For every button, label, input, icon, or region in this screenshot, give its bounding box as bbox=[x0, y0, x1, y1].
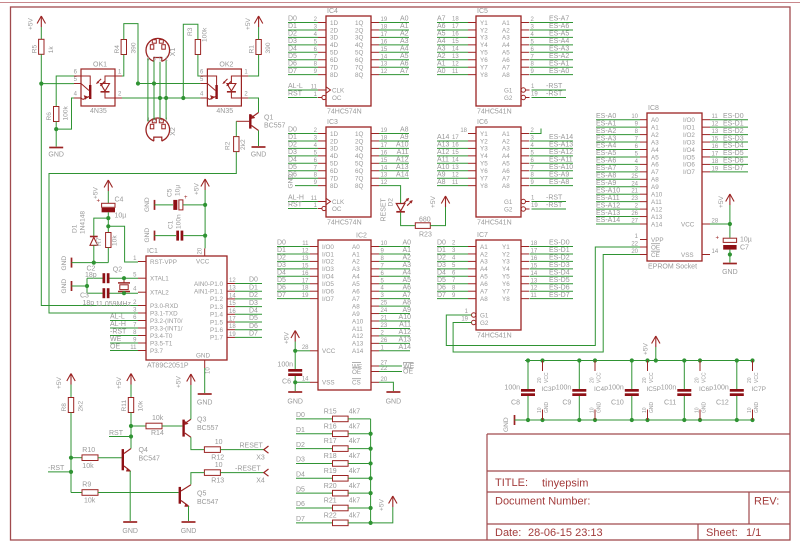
net label A5 bbox=[379, 277, 411, 284]
junction bbox=[203, 203, 207, 207]
net label D2 bbox=[235, 292, 262, 299]
net label AL-H bbox=[110, 321, 138, 328]
net label ES-A2 bbox=[530, 53, 574, 60]
net label ES-D0 bbox=[530, 240, 574, 247]
svg-text:D2: D2 bbox=[437, 255, 446, 262]
resistor R18 4k7 bbox=[296, 453, 373, 466]
svg-text:3Q: 3Q bbox=[355, 146, 364, 153]
net label RST bbox=[109, 430, 131, 437]
IC8 EPROM socket bbox=[631, 105, 719, 271]
svg-text:28: 28 bbox=[302, 345, 309, 351]
svg-text:10k: 10k bbox=[84, 498, 96, 505]
net label D5 bbox=[235, 315, 262, 322]
wire X1-X2 pin column a bbox=[147, 59, 149, 122]
svg-text:D1: D1 bbox=[437, 247, 446, 254]
net label D7 bbox=[437, 292, 468, 299]
svg-text:ES-D2: ES-D2 bbox=[549, 255, 570, 262]
net label D7 bbox=[277, 292, 310, 299]
svg-text:A0: A0 bbox=[437, 68, 446, 75]
svg-text:+5V: +5V bbox=[56, 376, 63, 389]
net label D2 bbox=[288, 142, 318, 149]
svg-text:D6: D6 bbox=[249, 323, 258, 330]
IC5 74HC541N bbox=[468, 8, 538, 116]
+5V supply arrow bbox=[284, 331, 300, 345]
net label ES-A14 bbox=[596, 217, 640, 224]
junction bbox=[293, 380, 297, 384]
wire row OK1 pin 2 to OK2 pin 4 bbox=[122, 97, 200, 99]
svg-text:D5: D5 bbox=[296, 486, 305, 493]
svg-text:IC6P: IC6P bbox=[699, 386, 713, 393]
svg-text:D5: D5 bbox=[277, 277, 286, 284]
svg-text:GND: GND bbox=[197, 400, 213, 407]
svg-text:R3: R3 bbox=[187, 27, 194, 36]
svg-text:4k7: 4k7 bbox=[349, 409, 360, 416]
net label A7 bbox=[379, 68, 409, 75]
svg-text:A1: A1 bbox=[480, 244, 488, 251]
bypass rail +5V top bbox=[525, 360, 754, 362]
svg-text:4k7: 4k7 bbox=[349, 512, 360, 519]
svg-text:P3.0-RXD: P3.0-RXD bbox=[150, 303, 179, 310]
svg-text:G2: G2 bbox=[504, 206, 513, 213]
svg-text:A12: A12 bbox=[399, 329, 412, 336]
wire R1 to OK2 pin 1 bbox=[248, 55, 258, 77]
capacitor C4 10u polarized bbox=[96, 197, 126, 220]
svg-text:A6: A6 bbox=[352, 289, 360, 296]
svg-text:+5V: +5V bbox=[284, 331, 291, 344]
wire VSS bbox=[295, 376, 310, 382]
svg-text:18: 18 bbox=[460, 128, 467, 134]
wire Q4 collector bbox=[130, 447, 132, 449]
net label ES-A0 bbox=[596, 113, 640, 120]
net label D0 bbox=[277, 240, 310, 247]
svg-text:ES-A5: ES-A5 bbox=[549, 31, 569, 38]
svg-text:R17: R17 bbox=[324, 438, 337, 445]
net label A5 bbox=[379, 53, 409, 60]
svg-text:20: 20 bbox=[537, 377, 543, 383]
svg-text:R10: R10 bbox=[82, 447, 95, 454]
junction bbox=[106, 224, 110, 228]
svg-text:VCC: VCC bbox=[544, 372, 550, 383]
wire VCC rail bbox=[204, 190, 206, 248]
svg-text:RESET: RESET bbox=[240, 442, 264, 449]
svg-text:8Q: 8Q bbox=[355, 72, 364, 79]
wire to ground bbox=[729, 255, 731, 263]
net label ES-D2 bbox=[530, 255, 574, 262]
svg-text:I/O7: I/O7 bbox=[683, 169, 695, 176]
svg-text:D5: D5 bbox=[437, 277, 446, 284]
svg-text:G1: G1 bbox=[504, 199, 513, 206]
net label D7 bbox=[235, 331, 262, 338]
resistor R14 bbox=[131, 415, 182, 437]
svg-text:A7: A7 bbox=[480, 289, 488, 296]
svg-text:ES-A13: ES-A13 bbox=[596, 210, 620, 217]
svg-text:Y4: Y4 bbox=[502, 266, 510, 273]
ground bbox=[722, 264, 738, 277]
svg-text:IC5P: IC5P bbox=[647, 386, 661, 393]
svg-text:D1: D1 bbox=[288, 23, 297, 30]
net label ES-A6 bbox=[530, 23, 574, 30]
svg-text:A4: A4 bbox=[437, 38, 446, 45]
svg-text:R9: R9 bbox=[82, 482, 91, 489]
resistor R11 bbox=[121, 398, 145, 413]
net label A3 bbox=[379, 262, 411, 269]
wire IC1 GND pin bbox=[204, 368, 206, 393]
svg-text:Sheet:: Sheet: bbox=[706, 527, 738, 539]
svg-text:R11: R11 bbox=[121, 400, 128, 412]
svg-text:ES-D6: ES-D6 bbox=[723, 158, 744, 165]
svg-text:D1: D1 bbox=[249, 284, 258, 291]
svg-text:A1: A1 bbox=[651, 124, 659, 131]
svg-text:ES-D2: ES-D2 bbox=[723, 128, 744, 135]
net label A12 bbox=[379, 329, 411, 336]
wire ground row bbox=[72, 262, 109, 264]
svg-text:A10: A10 bbox=[651, 192, 663, 199]
net label A2 bbox=[437, 53, 468, 60]
svg-text:Y1: Y1 bbox=[502, 244, 510, 251]
svg-text:-RST: -RST bbox=[546, 91, 563, 98]
svg-text:A13: A13 bbox=[352, 341, 364, 348]
junction bbox=[39, 82, 43, 86]
svg-text:6Q: 6Q bbox=[355, 168, 364, 175]
net label -RST bbox=[532, 202, 567, 209]
junction bbox=[69, 470, 73, 474]
net label -RST bbox=[48, 465, 71, 472]
svg-text:100k: 100k bbox=[202, 27, 209, 42]
svg-text:Y1: Y1 bbox=[480, 131, 488, 138]
svg-text:I/O4: I/O4 bbox=[322, 274, 334, 281]
svg-text:R23: R23 bbox=[419, 232, 432, 239]
svg-text:28-06-15 23:13: 28-06-15 23:13 bbox=[528, 527, 603, 539]
net label ES-A12 bbox=[530, 149, 574, 156]
svg-text:A9: A9 bbox=[352, 311, 360, 318]
net label D4 bbox=[288, 157, 318, 164]
svg-text:CS: CS bbox=[352, 380, 361, 387]
+5V supply arrow bbox=[93, 180, 113, 203]
net label ES-D4 bbox=[530, 270, 574, 277]
+5V supply arrow bbox=[430, 195, 450, 208]
capacitor C2 18p bbox=[85, 266, 110, 284]
wire to D1 bbox=[94, 218, 109, 236]
svg-text:10: 10 bbox=[695, 407, 701, 413]
svg-text:A0: A0 bbox=[400, 16, 409, 23]
svg-text:P3.7: P3.7 bbox=[150, 348, 163, 355]
svg-text:+5V: +5V bbox=[379, 498, 386, 511]
net label ES-D1 bbox=[530, 247, 574, 254]
svg-text:D4: D4 bbox=[288, 46, 297, 53]
svg-text:GND: GND bbox=[386, 399, 402, 406]
resistor R20 4k7 bbox=[296, 483, 373, 496]
net label A12 bbox=[379, 157, 409, 164]
svg-text:A1: A1 bbox=[402, 247, 411, 254]
svg-text:+5V: +5V bbox=[430, 195, 437, 208]
svg-text:RST-VPP: RST-VPP bbox=[150, 259, 177, 266]
IC6 74HC541N bbox=[460, 119, 538, 227]
svg-text:X3: X3 bbox=[256, 454, 265, 461]
svg-text:C7: C7 bbox=[740, 245, 749, 252]
svg-text:A3: A3 bbox=[352, 266, 360, 273]
net label A1 bbox=[379, 23, 409, 30]
svg-text:D4: D4 bbox=[288, 157, 297, 164]
svg-text:R16: R16 bbox=[324, 423, 337, 430]
ground bbox=[61, 256, 72, 271]
svg-text:XTAL1: XTAL1 bbox=[150, 276, 169, 283]
svg-text:6D: 6D bbox=[330, 168, 339, 175]
svg-text:D5: D5 bbox=[249, 315, 258, 322]
LED D2 bbox=[381, 197, 413, 221]
net label GND bbox=[288, 174, 319, 189]
wire OK1 pin 6 to R6 bbox=[56, 76, 74, 107]
svg-text:Q1: Q1 bbox=[264, 115, 273, 122]
svg-text:4k7: 4k7 bbox=[349, 453, 360, 460]
wire C2/C3 ground bus bbox=[86, 278, 88, 293]
resistor R16 4k7 bbox=[296, 423, 373, 436]
net label ES-D5 bbox=[710, 150, 748, 157]
svg-text:ES-A4: ES-A4 bbox=[549, 38, 569, 45]
svg-text:ES-A1: ES-A1 bbox=[549, 60, 569, 67]
ground bbox=[181, 522, 197, 535]
capacitor C5 10u polarized bbox=[167, 185, 189, 210]
svg-text:GND: GND bbox=[181, 528, 197, 535]
svg-text:GND: GND bbox=[287, 399, 303, 406]
wire R6 to OK1 pin 4 bbox=[56, 98, 74, 129]
svg-text:Date:: Date: bbox=[495, 527, 521, 539]
svg-text:10µ: 10µ bbox=[175, 185, 182, 196]
net label D3 bbox=[277, 262, 310, 269]
svg-text:P1.4: P1.4 bbox=[210, 312, 223, 319]
svg-text:A4: A4 bbox=[651, 147, 659, 154]
wire CS to ground bbox=[379, 382, 393, 391]
net label A2 bbox=[379, 255, 411, 262]
svg-text:A8: A8 bbox=[437, 179, 446, 186]
svg-text:D6: D6 bbox=[296, 501, 305, 508]
wire to +5V bbox=[371, 507, 393, 523]
svg-text:AL-H: AL-H bbox=[110, 321, 126, 328]
net label D4 bbox=[277, 270, 310, 277]
svg-text:Y1: Y1 bbox=[480, 20, 488, 27]
net label A11 bbox=[379, 322, 411, 329]
junction bbox=[129, 424, 133, 428]
svg-text:ES-D1: ES-D1 bbox=[549, 247, 570, 254]
svg-text:+5V: +5V bbox=[176, 375, 183, 388]
wire Q4 emitter to ground bbox=[129, 471, 131, 521]
svg-text:5D: 5D bbox=[330, 50, 339, 57]
net label D3 bbox=[288, 38, 318, 45]
svg-text:4k7: 4k7 bbox=[349, 423, 360, 430]
svg-text:A7: A7 bbox=[352, 296, 360, 303]
ground bbox=[386, 392, 402, 406]
wire G2 to IC8 CE bbox=[453, 255, 640, 353]
svg-text:100k: 100k bbox=[63, 105, 70, 120]
svg-text:14: 14 bbox=[712, 249, 719, 255]
wire R2 base link bbox=[235, 121, 237, 136]
svg-text:11: 11 bbox=[452, 180, 459, 186]
svg-text:15: 15 bbox=[452, 150, 459, 156]
svg-text:A10: A10 bbox=[352, 318, 364, 325]
svg-text:R19: R19 bbox=[324, 468, 337, 475]
svg-text:ES-A12: ES-A12 bbox=[549, 149, 573, 156]
svg-text:R20: R20 bbox=[324, 483, 337, 490]
svg-text:A0: A0 bbox=[651, 117, 659, 124]
svg-text:Y6: Y6 bbox=[502, 281, 510, 288]
svg-text:TITLE:: TITLE: bbox=[495, 477, 528, 489]
net label D0 bbox=[437, 240, 468, 247]
svg-text:20: 20 bbox=[590, 377, 596, 383]
svg-text:12: 12 bbox=[452, 172, 459, 178]
svg-text:1N4148: 1N4148 bbox=[80, 211, 87, 234]
svg-text:4N35: 4N35 bbox=[90, 108, 107, 115]
junction bbox=[728, 222, 732, 226]
net label WE bbox=[379, 362, 415, 370]
capacitor C9 100n bbox=[556, 358, 587, 422]
svg-text:A14: A14 bbox=[651, 221, 663, 228]
svg-text:D2: D2 bbox=[249, 292, 258, 299]
junction bbox=[122, 291, 126, 295]
svg-text:A11: A11 bbox=[399, 322, 411, 329]
resistor R10 bbox=[71, 447, 122, 470]
wire X1-X2 pin column c bbox=[159, 62, 161, 118]
wire R7 bottom bbox=[107, 248, 109, 263]
net label ES-D1 bbox=[710, 120, 748, 127]
wire bbox=[40, 54, 42, 83]
svg-text:A1: A1 bbox=[502, 20, 510, 27]
svg-text:VCC: VCC bbox=[649, 372, 655, 383]
net label ES-D6 bbox=[530, 284, 574, 291]
capacitor C8 100n bbox=[504, 358, 535, 422]
power gate IC6P bbox=[695, 358, 714, 422]
svg-text:Y6: Y6 bbox=[480, 168, 488, 175]
svg-text:GND: GND bbox=[61, 256, 68, 271]
svg-text:-RST: -RST bbox=[48, 465, 65, 472]
svg-text:ES-D3: ES-D3 bbox=[549, 262, 570, 269]
net label ES-A4 bbox=[596, 143, 640, 150]
svg-text:+5V: +5V bbox=[643, 342, 650, 355]
svg-text:D2: D2 bbox=[288, 31, 297, 38]
svg-text:A6: A6 bbox=[480, 281, 488, 288]
svg-text:16: 16 bbox=[452, 143, 459, 149]
wire 8Q to LED D2 bbox=[379, 186, 401, 203]
svg-text:C4: C4 bbox=[115, 197, 124, 204]
svg-text:OE: OE bbox=[651, 244, 660, 251]
svg-text:16: 16 bbox=[452, 32, 459, 38]
svg-text:I/O5: I/O5 bbox=[683, 154, 695, 161]
junction bbox=[85, 284, 89, 288]
svg-text:A2: A2 bbox=[651, 132, 659, 139]
wire R4 top to DIN row bbox=[124, 24, 138, 84]
svg-text:ES-D7: ES-D7 bbox=[549, 292, 570, 299]
svg-text:ES-A13: ES-A13 bbox=[549, 142, 573, 149]
net label D5 bbox=[288, 53, 318, 60]
svg-text:Y5: Y5 bbox=[480, 161, 488, 168]
svg-text:100n: 100n bbox=[661, 385, 677, 392]
net label ES-D3 bbox=[710, 135, 748, 142]
net label -RST bbox=[532, 91, 567, 98]
svg-text:+5V: +5V bbox=[718, 195, 725, 208]
net label D2 bbox=[288, 31, 318, 38]
optocoupler OK1 bbox=[74, 62, 122, 116]
svg-text:G1: G1 bbox=[480, 312, 489, 319]
+5V supply arrow bbox=[194, 179, 210, 195]
+5V supply arrow bbox=[718, 194, 734, 208]
svg-text:VSS: VSS bbox=[681, 252, 694, 259]
svg-text:A14: A14 bbox=[352, 348, 364, 355]
net label -RST bbox=[532, 83, 567, 90]
net label ES-A6 bbox=[596, 158, 640, 165]
wire VCC bbox=[295, 350, 310, 352]
connector X1 mini-DIN bbox=[146, 38, 177, 63]
net label D1 bbox=[288, 134, 318, 141]
net label ES-A5 bbox=[530, 31, 574, 38]
svg-text:D1: D1 bbox=[296, 427, 305, 434]
svg-text:5: 5 bbox=[159, 118, 162, 124]
svg-text:I/O2: I/O2 bbox=[683, 132, 695, 139]
svg-text:BC547: BC547 bbox=[197, 499, 219, 506]
svg-text:390: 390 bbox=[130, 42, 137, 53]
svg-text:A3: A3 bbox=[402, 262, 411, 269]
svg-text:GND: GND bbox=[122, 528, 138, 535]
net label A1 bbox=[437, 60, 468, 67]
svg-text:A5: A5 bbox=[480, 274, 488, 281]
net label AL-L bbox=[288, 83, 318, 90]
svg-text:RST: RST bbox=[288, 202, 303, 209]
IC3 74HC574N bbox=[311, 119, 388, 227]
svg-text:2k2: 2k2 bbox=[240, 139, 247, 150]
svg-text:7D: 7D bbox=[330, 65, 339, 72]
svg-text:11: 11 bbox=[452, 69, 459, 75]
svg-text:D3: D3 bbox=[277, 262, 286, 269]
svg-text:GND: GND bbox=[503, 417, 510, 432]
svg-text:A9: A9 bbox=[437, 171, 446, 178]
svg-text:X4: X4 bbox=[256, 477, 265, 484]
power gate IC3P bbox=[537, 358, 556, 422]
svg-text:A8: A8 bbox=[480, 296, 488, 303]
net label D6 bbox=[235, 323, 262, 330]
svg-text:D4: D4 bbox=[249, 308, 258, 315]
wire bbox=[294, 342, 296, 370]
svg-text:10: 10 bbox=[206, 367, 212, 374]
svg-text:18p: 18p bbox=[85, 272, 97, 279]
svg-text:A9: A9 bbox=[651, 184, 659, 191]
svg-text:R4: R4 bbox=[114, 45, 121, 54]
wire row to OK2 pin 5 bbox=[138, 83, 200, 85]
svg-text:5Q: 5Q bbox=[355, 50, 364, 57]
svg-text:A14: A14 bbox=[396, 171, 409, 178]
svg-text:Y7: Y7 bbox=[480, 65, 488, 72]
svg-text:X2: X2 bbox=[170, 127, 177, 136]
svg-text:REV:: REV: bbox=[754, 496, 779, 508]
svg-text:D2: D2 bbox=[277, 255, 286, 262]
svg-text:ES-A9: ES-A9 bbox=[596, 180, 616, 187]
net label ES-A10 bbox=[596, 187, 640, 194]
connector X3 bbox=[256, 446, 268, 461]
pull-up bus bbox=[370, 419, 372, 523]
net label ES-A9 bbox=[530, 171, 574, 178]
svg-text:OE: OE bbox=[352, 369, 361, 376]
svg-text:4D: 4D bbox=[330, 153, 339, 160]
svg-text:A13: A13 bbox=[399, 337, 412, 344]
svg-text:VCC: VCC bbox=[681, 221, 695, 228]
net label A4 bbox=[437, 38, 468, 45]
svg-text:7Q: 7Q bbox=[355, 176, 364, 183]
resistor R13 bbox=[204, 462, 224, 485]
svg-text:18: 18 bbox=[452, 17, 459, 23]
svg-text:A8: A8 bbox=[400, 127, 409, 134]
svg-text:OE: OE bbox=[403, 369, 413, 376]
svg-text:A2: A2 bbox=[437, 53, 446, 60]
svg-text:IC7P: IC7P bbox=[752, 386, 766, 393]
svg-text:10: 10 bbox=[590, 407, 596, 413]
svg-text:ES-A12: ES-A12 bbox=[596, 202, 620, 209]
net label ES-A14 bbox=[530, 134, 574, 141]
